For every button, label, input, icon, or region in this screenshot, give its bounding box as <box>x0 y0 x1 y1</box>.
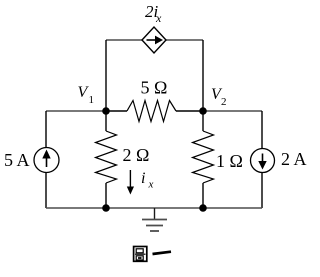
current source 2A <box>251 149 275 173</box>
wire middle rail left <box>46 110 106 112</box>
glyph tu (圖) <box>134 247 147 262</box>
wire left branch lower <box>45 173 47 209</box>
svg-text:i: i <box>141 170 145 187</box>
wire V2 up to top rail <box>202 40 204 111</box>
glyph yi (一) <box>153 252 172 254</box>
node V1 junction dot <box>102 107 110 115</box>
ground <box>142 208 167 231</box>
wire V1 up to top rail <box>105 40 107 111</box>
svg-text:2 Ω: 2 Ω <box>123 145 150 165</box>
svg-text:5 Ω: 5 Ω <box>141 78 168 98</box>
current source 5A <box>34 148 59 173</box>
current arrow ix <box>127 170 134 195</box>
wire top rail left segment <box>106 39 142 41</box>
node bottom-right junction dot <box>199 204 207 212</box>
wire bottom rail <box>46 207 262 209</box>
svg-text:2: 2 <box>221 96 227 108</box>
resistor R 2ohm vertical <box>96 111 117 208</box>
node V2 junction dot <box>199 107 207 115</box>
dependent current source 2ix (diamond) <box>142 27 166 53</box>
caption figure-1 (CJK drawn as paths) <box>134 247 171 262</box>
svg-text:1: 1 <box>89 94 95 106</box>
wire right branch upper <box>261 111 263 149</box>
wire middle rail V2 to right <box>203 110 262 112</box>
svg-text:x: x <box>155 11 162 25</box>
svg-text:2 A: 2 A <box>281 149 307 169</box>
wire left branch upper <box>45 111 47 148</box>
resistor R 5ohm horizontal <box>106 101 203 122</box>
node bottom-left junction dot <box>102 204 110 212</box>
svg-text:1 Ω: 1 Ω <box>216 151 243 171</box>
svg-text:5 A: 5 A <box>4 150 30 170</box>
svg-text:x: x <box>148 179 154 191</box>
wire right branch lower <box>261 173 263 209</box>
wire top rail right segment <box>166 39 203 41</box>
resistor R 1ohm vertical <box>193 111 214 208</box>
